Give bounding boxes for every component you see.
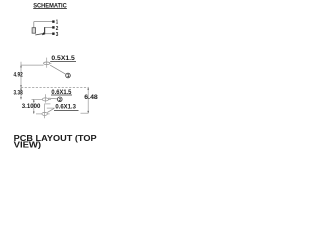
svg-text:3: 3 bbox=[56, 32, 59, 38]
svg-text:1: 1 bbox=[56, 20, 59, 26]
svg-text:0.5X1.5: 0.5X1.5 bbox=[51, 55, 75, 62]
svg-text:2: 2 bbox=[56, 26, 59, 32]
svg-text:3.38: 3.38 bbox=[14, 89, 23, 96]
svg-text:3.1000: 3.1000 bbox=[22, 103, 41, 110]
svg-text:4.92: 4.92 bbox=[14, 72, 23, 79]
svg-text:VIEW): VIEW) bbox=[14, 140, 42, 149]
svg-text:0.6X1.3: 0.6X1.3 bbox=[55, 104, 76, 111]
svg-text:6.48: 6.48 bbox=[84, 94, 98, 101]
